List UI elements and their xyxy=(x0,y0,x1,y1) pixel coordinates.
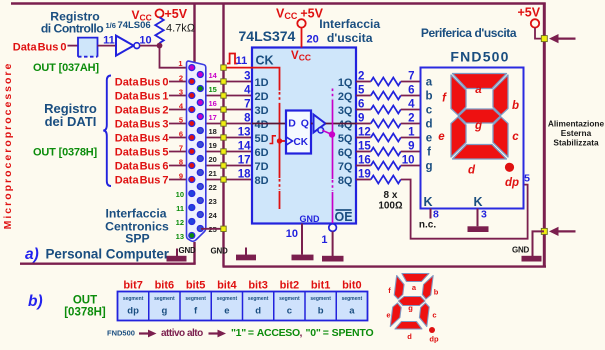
connector pin 25 xyxy=(197,226,203,232)
svg-text:8Q: 8Q xyxy=(338,175,353,187)
svg-text:bit6: bit6 xyxy=(155,280,175,292)
connector pin 12 xyxy=(189,219,195,225)
FND500 display body xyxy=(421,68,524,209)
svg-text:bit3: bit3 xyxy=(248,280,268,292)
svg-text:Stabilizzata: Stabilizzata xyxy=(553,137,599,147)
svg-text:d'uscita: d'uscita xyxy=(327,31,373,45)
svg-text:c: c xyxy=(287,306,292,317)
svg-text:VCC: VCC xyxy=(291,50,311,63)
wire resistor to FND pin 1 (e) xyxy=(401,137,421,139)
connector pin 10 xyxy=(189,191,195,197)
segment e xyxy=(451,117,466,157)
svg-text:3Q: 3Q xyxy=(338,105,353,117)
ground symbol for K xyxy=(468,226,489,232)
svg-text:attivo alto: attivo alto xyxy=(161,328,203,339)
external supply arrow top xyxy=(549,34,559,43)
svg-text:3: 3 xyxy=(481,209,487,221)
svg-text:FND500: FND500 xyxy=(107,329,135,338)
wire DataBus 1 (pin 3 to 74LS374 2D) xyxy=(169,95,252,97)
svg-text:11: 11 xyxy=(103,35,115,47)
svg-text:13: 13 xyxy=(238,127,251,139)
svg-text:OE: OE xyxy=(334,210,352,224)
svg-text:7Q: 7Q xyxy=(338,161,353,173)
svg-text:4D: 4D xyxy=(255,119,269,131)
svg-text:6D: 6D xyxy=(255,147,269,159)
svg-text:a): a) xyxy=(25,246,39,263)
node: yellow feedthrough squares on peripheral left edge xyxy=(221,65,226,70)
wire 2Q to resistor xyxy=(356,95,371,97)
svg-text:8D: 8D xyxy=(255,175,269,187)
wire 4D row into DFF xyxy=(252,123,286,125)
svg-text:2: 2 xyxy=(408,113,414,125)
svg-text:74LS374: 74LS374 xyxy=(239,28,296,44)
wire 5Q to resistor xyxy=(356,137,371,139)
svg-text:segment: segment xyxy=(279,296,300,302)
connector pin 9 xyxy=(189,177,195,183)
wire DataBus 4 (pin 6 to 74LS374 5D) xyxy=(169,137,252,139)
op: inverter 74LS06 triangle xyxy=(116,36,134,56)
resistor R1 4.7k pull-up xyxy=(155,17,163,43)
svg-text:21: 21 xyxy=(209,169,217,178)
svg-text:1: 1 xyxy=(178,59,182,68)
connector pin 17 xyxy=(197,114,203,120)
latch cell (control register bit) xyxy=(78,38,98,57)
node: +5V rail entry top xyxy=(541,36,547,42)
svg-text:K: K xyxy=(473,195,482,209)
svg-text:4: 4 xyxy=(408,99,415,111)
svg-text:segment: segment xyxy=(123,296,144,302)
connector J1 DB25 body xyxy=(187,61,206,241)
svg-text:OUT: OUT xyxy=(73,295,97,307)
decimal point dot xyxy=(505,163,514,172)
wire CK red line xyxy=(224,68,280,91)
svg-text:g: g xyxy=(425,161,432,173)
svg-text:17: 17 xyxy=(238,155,251,167)
wire DataBus 0 (pin 2 to 74LS374 1D) xyxy=(169,81,252,83)
svg-text:d: d xyxy=(425,119,432,131)
wire latch to inverter xyxy=(98,45,117,47)
svg-text:b: b xyxy=(425,91,432,103)
svg-text:dei DATI: dei DATI xyxy=(45,114,97,129)
svg-text:segment: segment xyxy=(310,296,331,302)
wire resistor to FND pin 9 (f) xyxy=(401,151,421,153)
wire OE pin 1 to ground xyxy=(332,231,334,256)
svg-text:e: e xyxy=(386,311,390,320)
segment b xyxy=(493,75,508,115)
svg-text:FND500: FND500 xyxy=(450,49,509,65)
node: junction inverter/4.7k xyxy=(157,43,163,49)
wire: box a bottom edge xyxy=(20,263,196,265)
wire 7Q to resistor xyxy=(356,165,371,167)
svg-text:bit0: bit0 xyxy=(342,280,362,292)
connector pin 19 xyxy=(197,142,203,148)
mini 7-segment digit xyxy=(390,274,433,330)
wire: box a right edge bottom segment xyxy=(193,242,195,264)
connector pin 7 xyxy=(189,149,195,155)
svg-text:1: 1 xyxy=(321,234,327,246)
svg-text:OUT[037AH]: OUT[037AH] xyxy=(33,62,99,74)
svg-text:d: d xyxy=(255,306,261,317)
op-amp U1 74LS374 chip body xyxy=(252,48,356,224)
svg-text:19: 19 xyxy=(209,141,217,150)
svg-text:14: 14 xyxy=(238,141,251,153)
svg-text:8: 8 xyxy=(244,113,251,125)
svg-text:segment: segment xyxy=(154,296,175,302)
node: magenta junction to buffer enable xyxy=(329,131,335,137)
wire resistor to FND pin 4 (c) xyxy=(401,109,421,111)
svg-text:segment: segment xyxy=(217,296,238,302)
wire Vcc circle to pin 20 xyxy=(301,28,303,48)
svg-text:23: 23 xyxy=(209,197,217,206)
svg-text:5Q: 5Q xyxy=(338,133,353,145)
bit table xyxy=(118,292,368,321)
transistor-level D flip-flop symbol xyxy=(286,111,311,154)
svg-text:g: g xyxy=(474,120,482,132)
svg-text:+5V: +5V xyxy=(165,7,188,21)
wire 3Q to resistor xyxy=(356,109,371,111)
svg-text:segment: segment xyxy=(342,296,363,302)
pin 8 n.c. stub xyxy=(430,209,432,219)
svg-text:2D: 2D xyxy=(255,91,269,103)
svg-text:8 x: 8 x xyxy=(384,190,398,201)
svg-text:d: d xyxy=(468,165,476,177)
connector pin 18 xyxy=(197,128,203,134)
segment g xyxy=(459,109,501,123)
svg-text:18: 18 xyxy=(238,169,251,181)
wire DataBus0 to latch cell xyxy=(68,45,79,47)
svg-text:Interfaccia: Interfaccia xyxy=(319,17,380,31)
ground symbol for OE xyxy=(322,256,344,262)
svg-text:2Q: 2Q xyxy=(338,91,353,103)
ground symbol at rail xyxy=(522,256,542,262)
svg-text:16: 16 xyxy=(209,99,217,108)
svg-text:7: 7 xyxy=(408,71,414,83)
svg-text:segment: segment xyxy=(248,296,269,302)
wire 4Q to resistor xyxy=(356,123,371,125)
svg-text:CK: CK xyxy=(256,54,274,68)
svg-text:14: 14 xyxy=(209,71,218,80)
svg-text:100Ω: 100Ω xyxy=(378,201,403,212)
svg-text:CK: CK xyxy=(294,137,309,148)
svg-text:bit7: bit7 xyxy=(123,280,143,292)
svg-text:20: 20 xyxy=(307,33,319,45)
connector pin 5 xyxy=(189,121,195,127)
svg-text:e: e xyxy=(426,133,432,145)
wire 1Q to resistor xyxy=(356,81,371,83)
resistor R2 100ohm xyxy=(371,78,401,86)
svg-text:a: a xyxy=(475,84,482,96)
svg-text:11: 11 xyxy=(176,204,184,213)
svg-text:c: c xyxy=(512,131,519,143)
connector pin 20 xyxy=(197,156,203,162)
svg-text:6: 6 xyxy=(408,85,414,97)
wire Q to tri-state buffer xyxy=(311,123,314,125)
svg-text:GND: GND xyxy=(179,246,196,255)
svg-text:"1"=ACCESO: "1"=ACCESO xyxy=(231,327,300,339)
svg-text:D: D xyxy=(288,118,296,130)
wire +5V circle to rail xyxy=(535,28,543,39)
wire: top border of boxes a and peripheral xyxy=(11,2,546,5)
wire: peripheral box left edge xyxy=(222,3,224,267)
node: GND rail entry bottom xyxy=(541,228,547,234)
resistor R4 100ohm xyxy=(371,106,401,114)
svg-text:3: 3 xyxy=(244,71,250,83)
svg-text:8: 8 xyxy=(179,157,183,166)
wire DataBus 5 (pin 7 to 74LS374 6D) xyxy=(169,151,252,153)
wire 6Q to resistor xyxy=(356,151,371,153)
tri-state output buffer xyxy=(314,115,326,133)
svg-text:dp: dp xyxy=(505,177,519,189)
wire DataBus 6 (pin 8 to 74LS374 7D) xyxy=(169,165,252,167)
svg-text:bit5: bit5 xyxy=(186,280,206,292)
svg-text:GND: GND xyxy=(512,246,529,255)
wire DataBus 3 (pin 5 to 74LS374 4D) xyxy=(169,123,252,125)
svg-text:d: d xyxy=(407,332,412,341)
svg-text:g: g xyxy=(161,306,167,317)
wire: box a right edge top segment xyxy=(193,3,195,63)
svg-text:OUT[0378H]: OUT[0378H] xyxy=(33,146,98,158)
svg-text:Periferica d'uscita: Periferica d'uscita xyxy=(421,26,517,40)
svg-text:b): b) xyxy=(28,293,43,310)
svg-text:20: 20 xyxy=(209,155,217,164)
connector pin 6 xyxy=(189,135,195,141)
svg-text:segment: segment xyxy=(185,296,206,302)
svg-text:18: 18 xyxy=(209,127,217,136)
7-segment digit segment a xyxy=(453,74,507,89)
svg-text:7: 7 xyxy=(244,99,250,111)
resistor R8 100ohm xyxy=(371,162,401,170)
svg-text:4: 4 xyxy=(244,85,251,97)
connector pin 22 xyxy=(197,184,203,190)
pin 3 to ground xyxy=(477,209,479,227)
resistor R6 100ohm xyxy=(371,134,401,142)
svg-text:SPP: SPP xyxy=(125,232,149,246)
segment f xyxy=(451,75,466,115)
svg-text:g: g xyxy=(408,304,413,313)
OE active-low bubble xyxy=(329,224,337,232)
connector pin 13 xyxy=(189,233,195,239)
wire DataBus 2 (pin 4 to 74LS374 3D) xyxy=(169,109,252,111)
connector pin 21 xyxy=(197,170,203,176)
svg-text:dp: dp xyxy=(127,306,139,317)
connector pin 14 xyxy=(197,72,203,78)
ground symbol for chip GND xyxy=(292,255,314,261)
svg-text:17: 17 xyxy=(209,113,217,122)
node: red junction on CK line xyxy=(277,138,282,143)
connector pin 4 xyxy=(189,107,195,113)
svg-text:13: 13 xyxy=(176,232,184,241)
svg-text:2: 2 xyxy=(179,73,183,82)
svg-text:11: 11 xyxy=(236,55,248,67)
svg-text:1: 1 xyxy=(408,127,415,139)
svg-text:22: 22 xyxy=(209,183,217,192)
wire inverter output to pull-up node xyxy=(140,45,160,47)
svg-text:GND: GND xyxy=(211,247,228,256)
svg-text:5: 5 xyxy=(179,115,183,124)
pulse symbol at CK input xyxy=(227,54,238,64)
svg-text:4.7kΩ: 4.7kΩ xyxy=(166,23,196,35)
svg-text:GND: GND xyxy=(300,214,321,224)
svg-text:f: f xyxy=(427,147,431,159)
svg-text:Q: Q xyxy=(301,118,309,130)
svg-text:,: , xyxy=(300,327,303,339)
svg-text:4Q: 4Q xyxy=(338,119,353,131)
wire resistor to FND pin 10 (g) xyxy=(401,165,421,167)
svg-text:10: 10 xyxy=(176,190,184,199)
svg-text:b: b xyxy=(512,100,519,112)
connector pin 24 xyxy=(197,212,203,218)
svg-text:b: b xyxy=(434,288,439,297)
svg-text:K: K xyxy=(423,195,432,209)
segment d xyxy=(453,145,507,160)
connector pin 3 xyxy=(189,93,195,99)
connector pin 16 xyxy=(197,100,203,106)
svg-text:b: b xyxy=(318,306,324,317)
svg-text:bit2: bit2 xyxy=(280,280,300,292)
wire OE magenta enable line xyxy=(332,89,334,100)
rising edge symbol at 5D xyxy=(270,136,277,144)
connector pin 23 xyxy=(197,198,203,204)
external supply arrow bottom xyxy=(549,227,559,236)
svg-text:3D: 3D xyxy=(255,105,269,117)
svg-text:di Controllo: di Controllo xyxy=(41,21,103,35)
wire: peripheral box bottom edge xyxy=(223,265,547,267)
wire DataBus 7 (pin 9 to 74LS374 8D) xyxy=(169,179,252,181)
svg-text:5D: 5D xyxy=(255,133,269,145)
brace for data bus lines xyxy=(103,76,111,187)
svg-text:e: e xyxy=(224,306,229,317)
svg-text:5: 5 xyxy=(524,173,530,185)
wire resistor 8 to dp pin 5 xyxy=(401,180,528,239)
svg-text:6Q: 6Q xyxy=(338,147,353,159)
wire resistor to FND pin 2 (d) xyxy=(401,123,421,125)
connector pin 8 xyxy=(189,163,195,169)
wire junction down to connector pin 1 xyxy=(160,46,191,68)
wire: peripheral box right edge / +5V rail xyxy=(543,3,546,268)
wire chip GND pin 10 to ground xyxy=(301,224,303,255)
svg-text:3: 3 xyxy=(179,87,183,96)
svg-text:"0"=SPENTO: "0"=SPENTO xyxy=(306,327,374,339)
svg-text:10: 10 xyxy=(286,228,298,240)
svg-text:12: 12 xyxy=(176,218,184,227)
svg-text:10: 10 xyxy=(402,155,415,167)
svg-text:[0378H]: [0378H] xyxy=(64,307,106,319)
svg-text:e: e xyxy=(438,131,445,143)
wire 8Q to resistor xyxy=(356,179,371,181)
svg-text:+5V: +5V xyxy=(518,6,541,20)
resistor R7 100ohm xyxy=(371,148,401,156)
connector pin 2 xyxy=(189,79,195,85)
svg-text:9: 9 xyxy=(179,171,183,180)
svg-text:c: c xyxy=(426,105,433,117)
svg-text:c: c xyxy=(432,311,436,320)
resistor R5 100ohm xyxy=(371,120,401,128)
svg-text:a: a xyxy=(426,77,433,89)
svg-text:1Q: 1Q xyxy=(338,77,353,89)
svg-text:Microproceroprocessore: Microproceroprocessore xyxy=(2,62,14,230)
svg-text:Personal Computer: Personal Computer xyxy=(46,246,170,261)
wire buffer output to 4Q pin xyxy=(326,123,357,125)
connector pin 1 xyxy=(189,65,195,71)
connector pin 15 xyxy=(197,86,203,92)
mini decimal point xyxy=(429,327,435,333)
resistor R3 100ohm xyxy=(371,92,401,100)
svg-text:7D: 7D xyxy=(255,161,269,173)
wire pin 25 to peripheral ground xyxy=(201,228,224,230)
svg-text:6: 6 xyxy=(179,129,183,138)
svg-text:9: 9 xyxy=(408,141,414,153)
resistor R9 100ohm xyxy=(371,176,401,184)
svg-text:24: 24 xyxy=(209,211,218,220)
svg-text:bit1: bit1 xyxy=(311,280,331,292)
svg-text:7: 7 xyxy=(179,143,183,152)
segment c xyxy=(493,117,508,157)
svg-text:n.c.: n.c. xyxy=(419,220,436,231)
svg-text:bit4: bit4 xyxy=(217,280,237,292)
wire rail junction to GND xyxy=(533,231,545,256)
wire resistor to FND pin 6 (b) xyxy=(401,95,421,97)
connector pin 11 xyxy=(189,205,195,211)
wire resistor to FND pin 7 (a) xyxy=(401,81,421,83)
svg-text:a: a xyxy=(349,306,355,317)
svg-text:1D: 1D xyxy=(255,77,269,89)
svg-text:15: 15 xyxy=(209,85,217,94)
svg-text:dp: dp xyxy=(429,335,439,344)
